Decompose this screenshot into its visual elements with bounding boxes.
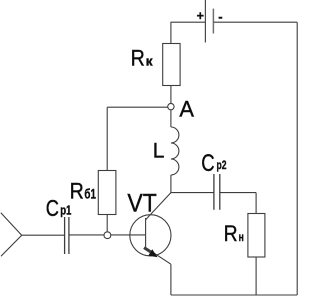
wire: Rk bottom to node A <box>170 86 172 104</box>
capacitor C1 (Cp1) <box>46 195 72 254</box>
svg-text:н: н <box>239 232 244 244</box>
wire top right: battery - to right rail <box>214 21 298 23</box>
svg-text:p2: p2 <box>217 160 227 172</box>
wire: node A to inductor <box>170 110 172 127</box>
wire: Rn bottom to bottom rail <box>255 257 257 295</box>
wire: inductor to collector junction <box>170 175 172 193</box>
svg-text:VT: VT <box>127 190 156 218</box>
wire: junction to Cp2 <box>171 192 214 194</box>
svg-text:C: C <box>46 195 59 221</box>
wire: down to Rb1 <box>106 107 108 170</box>
wire: Rb1 bottom to base node <box>106 215 108 232</box>
wire: base node to transistor base <box>111 234 146 236</box>
wire: Cp2 to Rn branch <box>220 192 256 194</box>
svg-text:R: R <box>224 221 238 246</box>
resistor R2 (Rb1) <box>70 171 116 215</box>
wire: down to Rn <box>255 193 257 214</box>
battery GB <box>197 0 223 43</box>
svg-text:к: к <box>146 55 154 69</box>
wire: emitter down to bottom rail <box>170 264 172 295</box>
svg-text:R: R <box>131 46 145 71</box>
capacitor C2 (Cp2) <box>201 150 226 210</box>
resistor R1 (Rk) <box>131 44 180 86</box>
transistor Q1 (VT) <box>127 190 171 265</box>
wire top left: battery + to Rk branch <box>171 21 206 23</box>
inductor L <box>153 127 179 175</box>
wire right rail <box>296 22 298 295</box>
wire: Cp1 to base node <box>69 234 104 236</box>
svg-text:+: + <box>197 9 204 23</box>
input terminal chevron <box>1 213 22 256</box>
svg-text:б1: б1 <box>84 186 96 201</box>
svg-text:A: A <box>179 97 194 122</box>
node: base junction terminal <box>104 232 111 239</box>
wire: top rail down to Rk <box>170 22 172 43</box>
svg-text:C: C <box>201 150 214 177</box>
resistor R3 (Rn) <box>224 214 265 258</box>
node A <box>168 97 194 122</box>
wire: input to Cp1 <box>22 234 65 236</box>
svg-text:p1: p1 <box>60 203 71 217</box>
svg-text:L: L <box>153 139 165 162</box>
wire: node A branch to base divider (horizontal) <box>107 106 168 108</box>
svg-text:R: R <box>70 178 84 203</box>
wire bottom rail <box>171 294 297 296</box>
